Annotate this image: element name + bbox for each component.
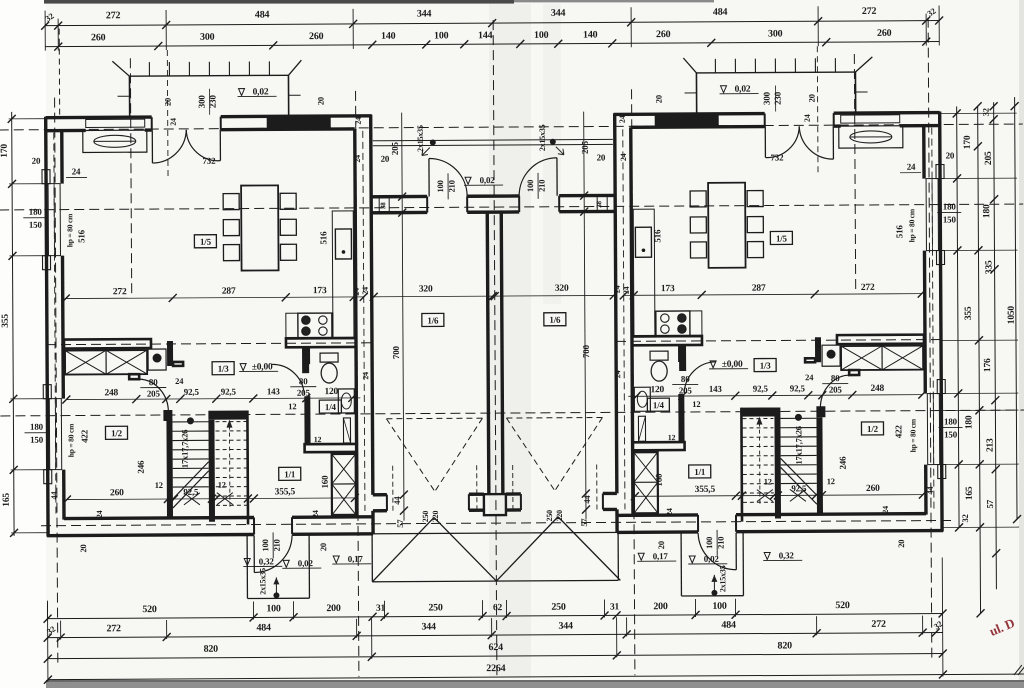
svg-text:2x15x35: 2x15x35 (718, 565, 727, 592)
left west wall window upper (48, 184, 60, 256)
svg-text:260: 260 (877, 28, 892, 39)
extension dashed x819 (816, 46, 819, 176)
right unit bottom wall inner line (625, 513, 698, 517)
bottom jog right unit to garage (617, 514, 625, 517)
svg-text:100: 100 (260, 539, 270, 551)
svg-text:17x17,7x26: 17x17,7x26 (179, 430, 189, 468)
svg-text:17x17,7x26: 17x17,7x26 (793, 426, 803, 464)
axis horizontal y523 bottom walls (41, 520, 953, 525)
left top porch posts (128, 76, 130, 116)
left unit top wall inner line (46, 129, 86, 133)
right top porch posts (854, 72, 856, 112)
left unit floor cross marks under stairs (184, 493, 200, 505)
svg-text:516: 516 (318, 231, 328, 245)
right unit door hall to bedroom corridor arc (820, 375, 849, 408)
svg-text:210: 210 (537, 180, 547, 192)
left garage room label 1/6 (422, 313, 444, 326)
left entrance step dot and label (430, 139, 436, 145)
right unit dining table (708, 183, 745, 268)
svg-text:2x15x35: 2x15x35 (258, 568, 267, 595)
driveway building line (364, 532, 626, 534)
right east wall cavity dashes (932, 128, 934, 513)
left unit partition living/hall kitchen part (286, 338, 356, 347)
svg-text:1/6: 1/6 (549, 315, 561, 325)
extension dashed x169 (166, 50, 169, 180)
left unit back door arc (253, 535, 255, 572)
svg-text:422: 422 (79, 429, 89, 443)
svg-text:1/4: 1/4 (325, 402, 337, 412)
svg-text:820: 820 (778, 640, 793, 651)
svg-text:20: 20 (163, 98, 173, 106)
svg-text:2x15x35: 2x15x35 (416, 125, 425, 152)
axis horizontal y127 (0, 124, 1023, 130)
svg-text:205: 205 (580, 140, 590, 154)
svg-text:hp = 80 cm: hp = 80 cm (907, 208, 916, 242)
svg-text:20: 20 (896, 540, 906, 548)
svg-text:38: 38 (379, 202, 387, 209)
right unit bath west wall upper (678, 345, 684, 362)
svg-text:160: 160 (320, 475, 330, 489)
svg-text:344: 344 (558, 621, 573, 632)
svg-text:100: 100 (712, 601, 727, 612)
left unit east wall / garage west wall (371, 115, 373, 495)
svg-text:100: 100 (435, 180, 445, 192)
left unit washer niche wall (167, 341, 173, 366)
garage door jamb dashed extension lines (392, 466, 394, 513)
svg-text:150: 150 (944, 429, 958, 439)
scan artifact center streak (489, 4, 531, 678)
svg-text:38: 38 (595, 200, 603, 207)
svg-text:24: 24 (361, 372, 370, 380)
right unit chimney duct with X (634, 452, 658, 513)
svg-text:44: 44 (392, 496, 402, 505)
axis vertical x56 left wall (55, 98, 58, 663)
svg-text:300: 300 (200, 32, 215, 43)
svg-text:1/3: 1/3 (760, 361, 772, 371)
svg-text:32: 32 (981, 108, 991, 116)
left unit top wall dark lintel block (267, 115, 331, 129)
svg-text:344: 344 (417, 8, 432, 19)
svg-text:516: 516 (652, 229, 662, 243)
entrance steps lines (373, 139, 613, 140)
right unit bottom wall outer line (617, 530, 698, 534)
left porch level mark 0,02 (239, 89, 245, 96)
svg-text:80: 80 (299, 376, 308, 386)
right unit west wall / garage east wall (615, 113, 617, 493)
right unit room label 1/4 (647, 398, 669, 411)
svg-text:57: 57 (395, 519, 405, 528)
svg-text:173: 173 (661, 284, 675, 294)
right porch level mark 0,02 (721, 86, 727, 93)
right unit stairs break line (781, 458, 817, 495)
svg-text:176: 176 (983, 358, 993, 372)
garage front wall center pier (484, 494, 506, 515)
svg-text:57: 57 (985, 499, 995, 508)
svg-text:272: 272 (113, 287, 127, 297)
svg-text:12: 12 (288, 401, 296, 411)
right east wall sill blocks (936, 165, 944, 179)
bottom jog left unit to garage (365, 515, 373, 518)
garage door dashed opening triangles right (506, 416, 602, 419)
svg-text:0,02: 0,02 (480, 175, 496, 185)
left garage dim 320 (374, 295, 493, 298)
svg-text:0,17: 0,17 (653, 551, 669, 561)
left unit bath bottom wall (305, 444, 357, 452)
right unit bath sink (634, 387, 650, 411)
left unit stairs walk line with arrow (228, 426, 230, 507)
svg-text:210: 210 (272, 539, 282, 551)
right level 0,17 bottom (638, 553, 644, 560)
svg-text:516: 516 (76, 229, 86, 243)
left unit stairs break line (173, 462, 209, 499)
axis horizontal y342 partition left unit (46, 343, 372, 345)
left unit main entry double door leaves and arcs (151, 130, 153, 163)
svg-text:320: 320 (555, 284, 569, 294)
axis horizontal y204 middle wall (0, 204, 1023, 210)
svg-text:220: 220 (555, 510, 564, 522)
svg-text:24: 24 (175, 376, 184, 386)
right unit stair top wall filled (741, 407, 780, 416)
svg-text:24: 24 (311, 510, 320, 518)
svg-text:200: 200 (326, 603, 341, 614)
svg-text:260: 260 (309, 31, 324, 42)
right east wall window upper (926, 179, 938, 251)
svg-text:300: 300 (197, 95, 207, 109)
svg-text:205: 205 (390, 141, 400, 155)
svg-text:484: 484 (256, 622, 271, 633)
left unit door hall to bath arc (272, 364, 304, 395)
svg-text:246: 246 (136, 460, 146, 474)
top row extension lines (44, 11, 46, 51)
svg-text:624: 624 (489, 642, 504, 653)
svg-text:272: 272 (106, 10, 121, 21)
scan artifact right edge (1019, 0, 1024, 680)
right unit partition living/hall kitchen part (632, 336, 702, 345)
top dim row 2 line (45, 42, 939, 47)
svg-text:12: 12 (764, 477, 772, 487)
svg-text:100: 100 (266, 603, 281, 614)
svg-text:250: 250 (421, 511, 430, 523)
svg-text:165: 165 (2, 493, 12, 507)
svg-text:355,5: 355,5 (275, 487, 296, 497)
left unit stairs upper flight dashed treads (215, 421, 246, 423)
svg-text:320: 320 (419, 284, 433, 294)
right unit top wall inner line (631, 125, 765, 129)
svg-text:0,32: 0,32 (259, 556, 275, 566)
left unit room 1/2 east wall (166, 421, 173, 518)
svg-text:260: 260 (656, 29, 671, 40)
right dim 1050 line (1015, 97, 1017, 519)
svg-text:24: 24 (907, 162, 916, 172)
svg-text:24: 24 (881, 506, 890, 514)
svg-text:300: 300 (768, 28, 783, 39)
svg-text:20: 20 (807, 94, 817, 102)
svg-text:355: 355 (964, 306, 974, 320)
svg-text:0,32: 0,32 (779, 550, 795, 560)
right unit east wall inner line (922, 126, 926, 179)
svg-text:20: 20 (381, 154, 390, 164)
svg-text:0,17: 0,17 (348, 554, 364, 564)
left unit stairs lower flight treads (172, 421, 208, 423)
svg-text:516: 516 (894, 225, 904, 239)
svg-text:520: 520 (142, 604, 157, 615)
svg-text:150: 150 (943, 214, 957, 224)
svg-text:1/1: 1/1 (284, 469, 296, 479)
left west wall cavity dashes (54, 133, 56, 518)
svg-text:170: 170 (963, 135, 973, 149)
left dim column line (12, 112, 14, 536)
svg-text:210: 210 (447, 180, 457, 192)
svg-text:344: 344 (551, 8, 566, 19)
axis vertical x856 right porch (854, 54, 855, 290)
svg-text:250: 250 (545, 510, 554, 522)
svg-text:287: 287 (222, 287, 236, 297)
svg-text:220: 220 (431, 511, 440, 523)
svg-text:230: 230 (773, 91, 783, 105)
left unit bottom wall inner line (64, 517, 254, 518)
svg-text:272: 272 (106, 623, 121, 634)
svg-text:44: 44 (49, 491, 59, 500)
svg-text:24: 24 (95, 510, 104, 518)
right unit niche stub (805, 358, 815, 362)
svg-text:20: 20 (78, 544, 88, 552)
svg-text:1/1: 1/1 (694, 467, 706, 477)
left unit stair middle wall (208, 420, 215, 522)
axis vertical x495 center (493, 20, 497, 678)
svg-text:1/2: 1/2 (867, 424, 879, 434)
svg-text:213: 213 (986, 438, 996, 452)
left unit stair top wall filled (208, 411, 247, 420)
svg-text:100: 100 (525, 180, 535, 192)
axis vertical x61 under 32 dim (58, 29, 61, 116)
svg-text:700: 700 (581, 344, 591, 358)
left top porch corner diagonals (112, 61, 129, 76)
svg-text:260: 260 (110, 488, 124, 498)
svg-text:355: 355 (1, 314, 11, 328)
svg-text:80: 80 (681, 374, 690, 384)
svg-text:1/4: 1/4 (653, 400, 665, 410)
svg-text:2264: 2264 (486, 663, 505, 674)
right unit kitchen wall pier (679, 345, 686, 371)
svg-text:246: 246 (838, 456, 848, 470)
svg-text:732: 732 (202, 156, 216, 166)
left west wall sill blocks (42, 170, 50, 184)
axis vertical x132 left porch (130, 58, 131, 294)
right unit stairs upper flight dashed treads (742, 417, 773, 419)
bottom dim row C line (48, 654, 943, 659)
svg-text:92,5: 92,5 (791, 483, 807, 493)
right unit kitchen counter horizontal (655, 311, 702, 337)
svg-text:92,5: 92,5 (221, 387, 237, 397)
svg-text:484: 484 (713, 7, 728, 18)
svg-text:205: 205 (147, 389, 161, 399)
svg-text:1050: 1050 (1007, 306, 1017, 325)
garage front wall right pier (603, 492, 617, 495)
svg-text:24: 24 (354, 117, 363, 125)
svg-text:143: 143 (709, 384, 723, 394)
right top porch roof line (696, 71, 855, 74)
svg-text:120: 120 (650, 385, 664, 395)
left top porch side ticks (118, 95, 130, 97)
left unit bath west wall upper (304, 347, 310, 364)
left unit room label 1/2 (105, 426, 127, 439)
right unit room label 1/2 (861, 422, 883, 435)
left unit chairs column B (280, 193, 296, 209)
left unit kitchen counter vertical (332, 211, 354, 339)
left unit room label 1/4 (319, 400, 341, 413)
left unit toilet (320, 353, 338, 362)
right unit room label 1/3 (754, 358, 776, 371)
driveway bottom edge (372, 580, 618, 581)
svg-text:272: 272 (861, 283, 875, 293)
right unit partition living/hall west part (837, 335, 924, 345)
svg-text:344: 344 (421, 621, 436, 632)
svg-text:24: 24 (353, 155, 362, 163)
bottom dim row D line (48, 674, 1024, 680)
svg-text:100: 100 (434, 30, 449, 41)
right garage entry door arc (556, 158, 558, 196)
right margin extension lines (941, 112, 1017, 114)
svg-text:80: 80 (831, 373, 840, 383)
left unit chimney duct with X (332, 454, 356, 515)
svg-text:180: 180 (943, 201, 957, 211)
svg-text:287: 287 (752, 284, 766, 294)
right unit closet with X (841, 346, 923, 370)
right unit stair east wall line (740, 408, 743, 522)
svg-text:200: 200 (653, 601, 668, 612)
svg-text:1/2: 1/2 (111, 428, 123, 438)
svg-text:173: 173 (313, 286, 327, 296)
right entrance step dot and label (550, 139, 556, 145)
axis vertical x633 (632, 89, 635, 675)
svg-text:272: 272 (862, 6, 877, 17)
svg-text:160: 160 (654, 473, 664, 487)
svg-text:24: 24 (618, 115, 627, 123)
svg-text:2x15x35: 2x15x35 (538, 124, 547, 151)
svg-text:0,02: 0,02 (298, 558, 314, 568)
svg-text:24: 24 (803, 114, 812, 122)
right garage room label 1/6 (544, 313, 566, 326)
svg-text:12: 12 (668, 433, 676, 442)
svg-text:24: 24 (613, 285, 622, 293)
left unit room label 1/5 (194, 235, 216, 248)
svg-text:1/5: 1/5 (200, 237, 212, 247)
right unit chairs column A (747, 191, 763, 207)
left unit kitchen counter horizontal (286, 313, 333, 339)
svg-text:44: 44 (925, 486, 935, 495)
left unit west wall inner line (60, 131, 64, 184)
garage front wall left pier (373, 493, 387, 496)
middle top wall pier details (379, 197, 389, 213)
right top porch side ticks (856, 91, 868, 93)
left unit stove with burners (298, 313, 332, 338)
svg-text:80: 80 (149, 377, 158, 387)
svg-text:205: 205 (829, 385, 843, 395)
svg-text:20: 20 (318, 543, 328, 551)
hatch mark bottom right corner (1014, 665, 1022, 675)
svg-text:12: 12 (692, 399, 700, 409)
left top porch roof line (129, 74, 288, 77)
svg-text:hp = 80 cm: hp = 80 cm (66, 423, 75, 457)
svg-text:250: 250 (551, 602, 566, 613)
garage door opening jamb marks (386, 495, 388, 511)
right garage dim 320 (495, 294, 614, 297)
right garage dim 700 vertical line (584, 112, 586, 520)
svg-text:484: 484 (255, 9, 270, 20)
right unit stairs start dot (795, 414, 802, 421)
right unit room label 1/1 (689, 465, 711, 478)
svg-text:422: 422 (893, 425, 903, 439)
svg-text:20: 20 (946, 150, 955, 160)
right unit top wall dark lintel block (655, 113, 719, 127)
left west wall window lower (49, 399, 61, 470)
right east wall window lower (927, 394, 939, 465)
svg-text:150: 150 (29, 220, 43, 230)
bottom dim row B line (48, 633, 943, 638)
svg-text:100: 100 (534, 30, 549, 41)
svg-text:205: 205 (679, 385, 693, 395)
svg-text:1/6: 1/6 (427, 315, 439, 325)
svg-text:62: 62 (493, 603, 503, 613)
svg-text:24: 24 (72, 166, 81, 176)
right unit back door arc (735, 533, 737, 570)
svg-text:180: 180 (944, 416, 958, 426)
right top porch corner diagonals (855, 57, 872, 72)
left unit stair east wall line (246, 411, 249, 525)
right top porch rafter ticks (834, 58, 836, 72)
entry level mark 0,02 (465, 177, 471, 184)
svg-text:20: 20 (656, 541, 666, 549)
left unit bath west wall lower (304, 396, 310, 445)
right unit room label 1/5 (770, 231, 792, 244)
right unit chairs column B (690, 191, 706, 207)
left unit door hall to bedroom corridor arc (139, 379, 168, 412)
left bottom porch outline (246, 536, 248, 599)
svg-text:24: 24 (169, 118, 178, 126)
svg-text:260: 260 (91, 32, 106, 43)
right unit stair pier filled (816, 406, 825, 417)
garage door dashed opening triangles left (386, 417, 482, 420)
middle section top wall outer line (371, 195, 427, 199)
left unit stairs start dot (187, 417, 194, 424)
left level 0,32 bottom (244, 559, 250, 566)
svg-text:335: 335 (985, 260, 995, 274)
left garage entry door arc (428, 158, 430, 196)
svg-text:24: 24 (805, 372, 814, 382)
svg-text:24: 24 (361, 287, 370, 295)
left top porch rafter ticks (148, 62, 150, 76)
svg-text:820: 820 (204, 644, 219, 655)
right unit top wall window w/ radiator (841, 115, 900, 123)
right porch level 0,02 bottom (689, 556, 695, 563)
svg-text:12: 12 (218, 480, 226, 490)
svg-text:170: 170 (0, 144, 10, 158)
svg-text:300: 300 (762, 91, 772, 105)
left unit closet with X (65, 350, 147, 374)
right unit floor cross marks under stairs (790, 489, 806, 501)
right unit washer niche wall (815, 337, 821, 362)
middle section top wall inner line (371, 211, 427, 215)
right unit stove with burners (656, 311, 690, 336)
svg-text:57: 57 (579, 518, 589, 527)
svg-text:165: 165 (965, 486, 975, 500)
right unit stair middle wall (774, 416, 781, 518)
svg-text:355,5: 355,5 (695, 485, 716, 495)
svg-text:0,02: 0,02 (704, 554, 720, 564)
left unit partition living/hall west part (64, 339, 151, 349)
svg-text:20: 20 (32, 156, 41, 166)
left unit stair pier filled (163, 410, 172, 421)
